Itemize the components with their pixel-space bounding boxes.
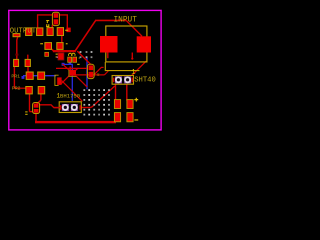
svg-text:1: 1 bbox=[57, 93, 61, 100]
svg-text:8: 8 bbox=[97, 72, 100, 78]
svg-text:BH1750: BH1750 bbox=[60, 92, 81, 99]
svg-text:INPUT: INPUT bbox=[114, 16, 138, 24]
svg-text:OUTPUT: OUTPUT bbox=[10, 28, 37, 36]
svg-text:SHT40: SHT40 bbox=[134, 77, 156, 85]
svg-text:PR2: PR2 bbox=[12, 85, 21, 91]
svg-text:PR1: PR1 bbox=[11, 73, 20, 79]
